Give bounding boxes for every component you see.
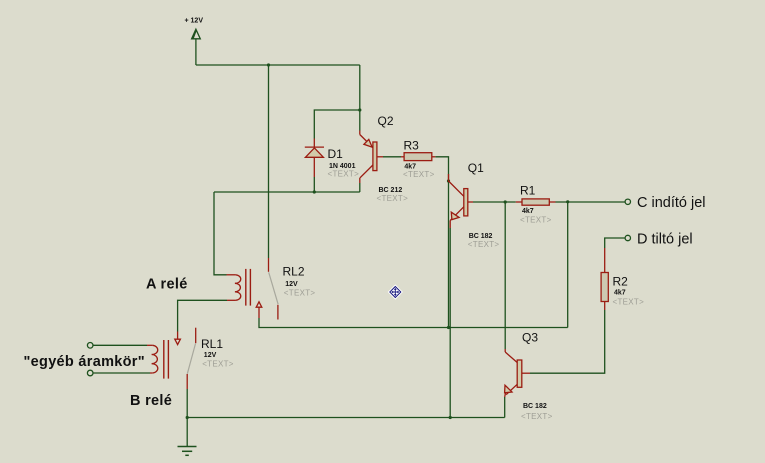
wire RL2 coil top feed	[214, 192, 227, 275]
svg-text:<TEXT>: <TEXT>	[377, 194, 409, 203]
junction at +12V rail x268	[267, 63, 270, 66]
terminal egyeb aramkor lower	[87, 370, 93, 376]
wire D terminal to R2 top	[605, 238, 625, 248]
resistor R3 4k7	[401, 153, 435, 161]
junction RL1 common / ground rail	[186, 416, 189, 419]
svg-text:<TEXT>: <TEXT>	[520, 216, 552, 225]
wire Q2 base to R3	[383, 156, 401, 158]
wire R2 bottom to Q3 base	[530, 310, 605, 373]
junction D1 cathode rail	[313, 190, 316, 193]
svg-text:<TEXT>: <TEXT>	[613, 298, 645, 307]
svg-text:<TEXT>: <TEXT>	[521, 412, 553, 421]
svg-text:<TEXT>: <TEXT>	[202, 359, 234, 368]
terminal egyeb aramkor upper	[87, 343, 93, 349]
svg-text:<TEXT>: <TEXT>	[284, 289, 316, 298]
diode D1 1N4001	[305, 139, 324, 178]
svg-text:<TEXT>: <TEXT>	[403, 170, 435, 179]
svg-text:RL1: RL1	[201, 337, 223, 351]
svg-text:+ 12V: + 12V	[185, 18, 204, 25]
wire Q2 collector down	[359, 183, 361, 192]
svg-text:RL2: RL2	[283, 265, 305, 279]
relay RL1 coil	[147, 340, 168, 379]
svg-text:BC 212: BC 212	[379, 187, 403, 194]
junction R1 output	[566, 200, 569, 203]
svg-text:12V: 12V	[285, 281, 298, 288]
move cursor icon	[388, 284, 403, 299]
svg-text:C indító jel: C indító jel	[637, 195, 706, 211]
wire vertical x360 upper	[359, 65, 361, 131]
svg-text:Q3: Q3	[522, 331, 538, 345]
relay RL1 switch	[175, 328, 196, 389]
svg-text:R3: R3	[404, 139, 420, 153]
svg-text:4k7: 4k7	[522, 208, 534, 215]
svg-text:<TEXT>: <TEXT>	[328, 170, 360, 179]
transistor Q3 BC182 (NPN)	[505, 349, 530, 397]
transistor Q2 BC212 (PNP)	[360, 131, 383, 184]
power +12V symbol	[192, 29, 201, 65]
svg-text:A relé: A relé	[146, 277, 188, 293]
svg-text:B relé: B relé	[130, 393, 172, 409]
wire RL2 contact row y327	[259, 318, 568, 328]
wire horizontal y192	[214, 191, 360, 193]
svg-text:R2: R2	[613, 275, 629, 289]
resistor R1 4k7	[516, 199, 556, 205]
wire vertical x505 Q1base to Q3 collector	[504, 202, 506, 349]
transistor Q1 BC182 (NPN)	[449, 174, 474, 228]
wire Q1 base to R1	[473, 201, 516, 203]
svg-text:BC 182: BC 182	[523, 403, 547, 410]
relay RL2 coil	[227, 269, 251, 306]
svg-text:Q2: Q2	[378, 114, 394, 128]
wire vertical x268	[268, 65, 270, 258]
wire RL1 coil pin 2	[93, 372, 150, 374]
svg-text:<TEXT>: <TEXT>	[468, 240, 500, 249]
wire D1 top branch	[314, 110, 360, 139]
svg-text:BC 182: BC 182	[469, 233, 493, 240]
terminal D tilto jel	[625, 235, 630, 240]
wire bottom rail	[187, 417, 505, 419]
junction D1 branch	[358, 108, 361, 111]
junction Q1 base / Q3 collector	[504, 200, 507, 203]
svg-text:D tiltó jel: D tiltó jel	[637, 231, 693, 247]
wire RL1 common down	[186, 389, 188, 418]
wire RL2 coil bottom to RL1 contact	[178, 300, 227, 331]
junction RL2 contact rail	[447, 326, 450, 329]
svg-text:12V: 12V	[204, 352, 217, 359]
svg-text:"egyéb áramkör": "egyéb áramkör"	[24, 354, 145, 370]
svg-text:Q1: Q1	[468, 161, 484, 175]
wire top horizontal	[196, 64, 360, 66]
junction Q1 collector tap	[447, 179, 450, 182]
wire D1 bottom	[313, 177, 315, 192]
relay RL2 switch	[256, 258, 278, 320]
wire Q1 emitter down	[449, 228, 451, 418]
terminal C indito jel	[625, 199, 630, 204]
wire Q3 emitter down	[504, 397, 506, 418]
svg-text:R1: R1	[520, 184, 536, 198]
svg-text:4k7: 4k7	[614, 290, 626, 297]
svg-text:D1: D1	[328, 147, 344, 161]
wire vertical x567	[567, 202, 569, 328]
wire RL1 coil pin 1	[93, 344, 147, 346]
junction Q1 emitter / ground rail	[449, 416, 452, 419]
wire R3 to corner down to y327	[435, 157, 448, 328]
wire R1 to C terminal	[556, 201, 626, 203]
ground	[178, 418, 197, 456]
resistor R2 4k7	[601, 248, 608, 310]
